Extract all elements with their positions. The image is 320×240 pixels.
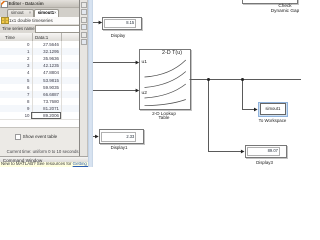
lookup port label u1	[142, 60, 150, 65]
minimized panel icons on strip	[81, 2, 87, 8]
label Display1	[98, 145, 140, 150]
title bar	[0, 0, 79, 8]
block Display3	[245, 145, 287, 159]
junction node 2	[241, 78, 244, 81]
editor window body	[0, 0, 80, 167]
wire into Display	[93, 21, 103, 25]
lookup table title 2-D T(u)	[158, 51, 186, 56]
block Display	[102, 17, 142, 31]
lookup port label u2	[142, 91, 150, 96]
block To Workspace (simout1), selected	[258, 102, 288, 118]
label 2-D Lookup Table	[144, 112, 184, 122]
wire into Display1	[93, 135, 99, 139]
block Check Dynamic Gap (cut off at top)	[242, 0, 298, 4]
wire into u2	[93, 89, 140, 93]
block Display1	[99, 129, 145, 144]
new to matlab yellow banner	[0, 162, 88, 167]
label Display3	[243, 160, 286, 165]
lookup table curves	[145, 60, 186, 106]
branch wire to To Workspace	[243, 80, 258, 112]
block 2-D Lookup Table U1	[139, 49, 191, 110]
wire into u1	[93, 61, 140, 65]
lower grey panel	[0, 127, 79, 157]
rows	[0, 40, 79, 42]
command window header bar	[0, 156, 88, 164]
tab bar	[0, 8, 79, 17]
wires and curves SVG overlay	[0, 0, 301, 167]
window right border blue band	[88, 0, 93, 167]
header	[0, 33, 79, 42]
info row: 1x1 double timeseries	[0, 17, 79, 25]
label Check Dynamic Gap	[263, 4, 307, 14]
table	[0, 33, 79, 127]
time series name row	[0, 24, 79, 34]
junction node 1	[207, 78, 210, 81]
branch wire to Display3	[209, 80, 245, 154]
main output wire of lookup table	[190, 79, 302, 81]
label Display	[98, 33, 138, 38]
label To Workspace	[250, 118, 295, 123]
desktop right strip background	[80, 0, 88, 167]
